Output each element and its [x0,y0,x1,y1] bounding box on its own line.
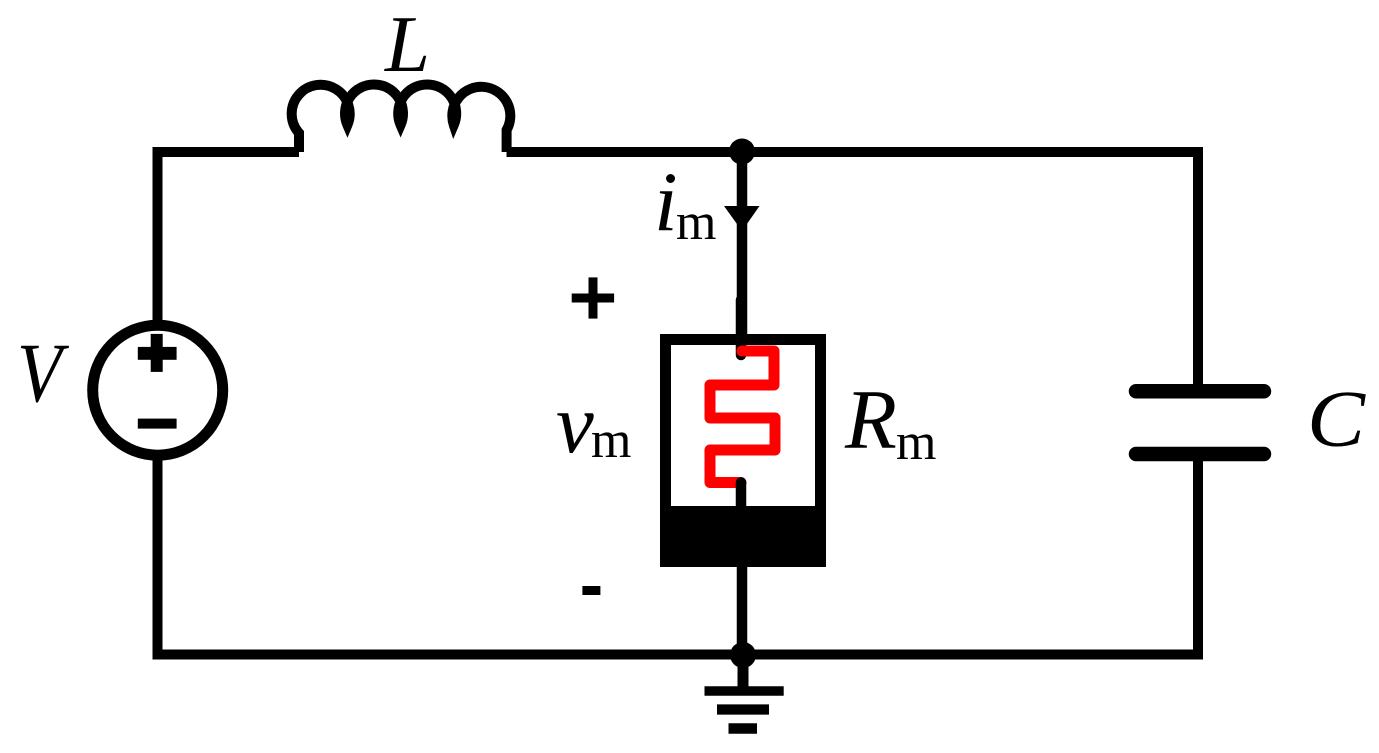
svg-text:m: m [896,414,936,471]
voltage source minus sign [138,419,177,429]
svg-text:C: C [1307,374,1366,464]
wire right vertical capacitor gap mask [1188,398,1208,447]
svg-text:i: i [654,155,678,249]
wire memristor bottom (box to junction) [737,563,748,655]
wire top rail middle (inductor to right corner) [507,147,742,157]
inductor L [292,84,511,152]
svg-text:R: R [844,373,897,467]
memristor Rm [660,300,826,567]
voltage source V [93,325,223,455]
label i_m [654,155,716,251]
label minus (vm polarity) [582,586,600,595]
wire bottom rail right (junction to right) [742,650,1198,660]
wire memristor top (junction to box) [737,152,748,340]
svg-text:V: V [17,326,70,420]
svg-text:L: L [384,0,430,89]
wire left-bottom (source to bottom rail) [153,458,163,655]
svg-text:v: v [556,377,594,471]
svg-text:m: m [591,412,631,469]
wire bottom rail left (to ground junction) [153,650,743,660]
label plus (vm polarity) [572,277,614,318]
voltage source plus sign [138,334,177,372]
svg-text:m: m [676,194,716,251]
junction node bottom [730,642,756,668]
label R_m [844,373,936,471]
label v_m [556,377,631,471]
wire top-left rail (corner to inductor) [158,152,300,322]
wire right vertical top (rail to capacitor) [507,152,1198,660]
current arrow im [724,206,760,231]
junction node top [729,139,755,165]
ground [705,655,784,729]
capacitor C [1136,391,1264,454]
